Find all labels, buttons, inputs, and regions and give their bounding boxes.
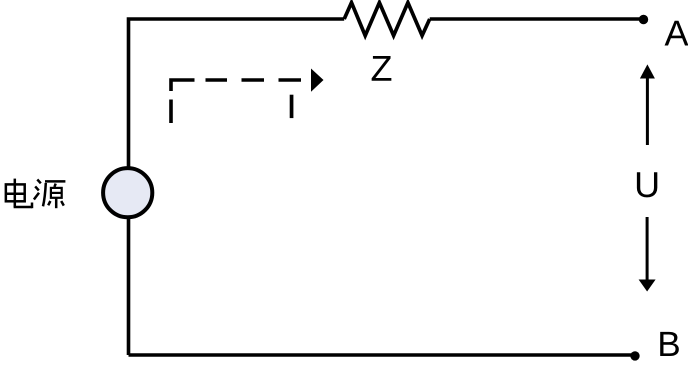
wire left vertical + top-left horizontal xyxy=(129,19,345,355)
glyph 电 xyxy=(6,179,32,209)
node B xyxy=(630,351,639,360)
current arrow I head xyxy=(311,69,324,92)
label I xyxy=(290,95,294,118)
label Z xyxy=(372,56,392,81)
label 电源 (drawn glyphs) xyxy=(6,179,66,209)
glyph 源 xyxy=(34,180,66,209)
node A xyxy=(639,15,648,24)
current arrow I (dashed) xyxy=(171,80,301,123)
label B xyxy=(660,332,679,356)
label A xyxy=(665,21,688,46)
label U xyxy=(637,172,657,197)
wire bottom horizontal xyxy=(129,353,635,357)
voltage arrow U down xyxy=(639,217,656,292)
source circle 电源 xyxy=(103,168,152,217)
wire top-right horizontal xyxy=(430,17,644,21)
voltage arrow U up xyxy=(640,64,655,145)
resistor Z xyxy=(344,3,430,36)
